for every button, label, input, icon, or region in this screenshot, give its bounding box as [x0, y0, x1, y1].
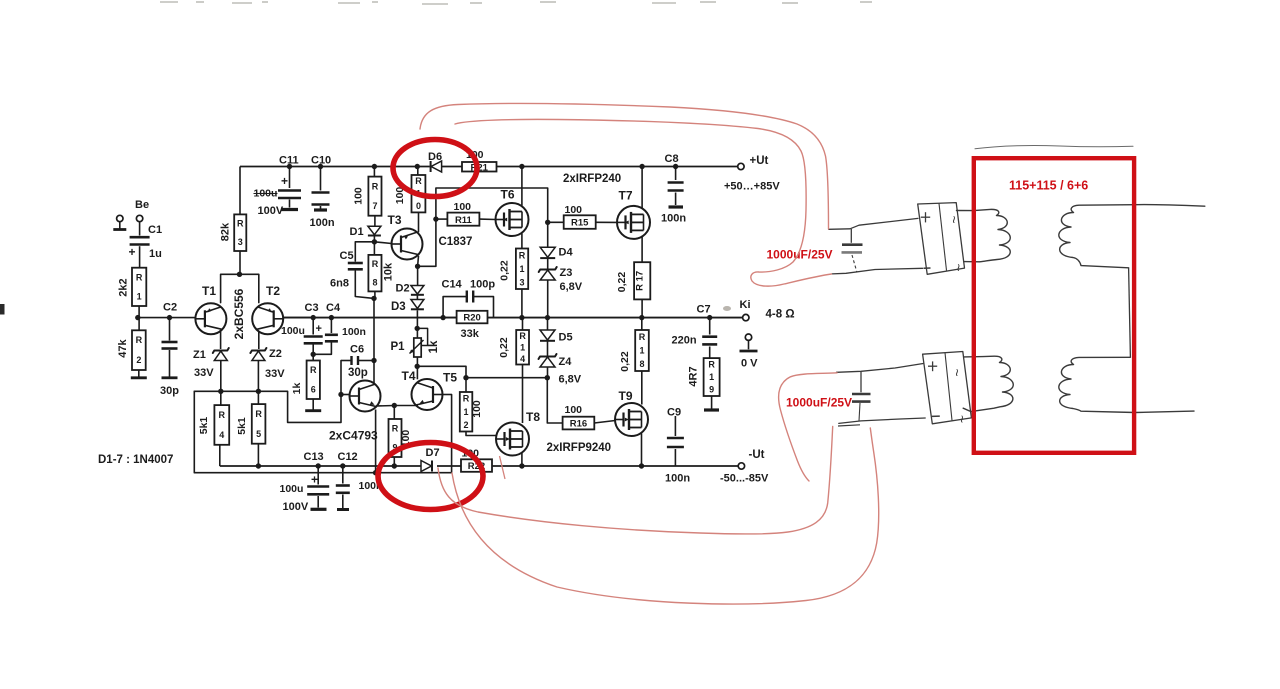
diode D4 [547, 222, 549, 247]
svg-text:R: R [136, 272, 143, 282]
svg-text:Z2: Z2 [269, 348, 282, 360]
svg-text:Z1: Z1 [193, 349, 206, 361]
red wire upper inner [455, 119, 832, 286]
wire T5 base right [443, 394, 452, 396]
resistor R8 [373, 242, 375, 255]
svg-text:C13: C13 [304, 451, 324, 463]
zener Z3 [547, 259, 549, 269]
node R11 left [433, 216, 438, 221]
svg-text:0,22: 0,22 [499, 260, 511, 281]
node T3 bottom [415, 264, 420, 269]
resistor R10 [417, 167, 419, 176]
svg-text:100: 100 [565, 204, 583, 216]
svg-text:82k: 82k [220, 222, 232, 241]
node input bias [135, 315, 140, 320]
svg-text:1: 1 [639, 346, 644, 356]
svg-text:+Ut: +Ut [750, 155, 769, 167]
svg-text:T4: T4 [402, 369, 416, 383]
svg-text:D2: D2 [396, 283, 410, 295]
svg-text:~: ~ [954, 415, 970, 423]
wire to R16 [547, 378, 562, 423]
svg-text:4: 4 [219, 430, 224, 440]
wire top rail +Ut [240, 166, 430, 168]
resistor R17 [634, 262, 650, 299]
resistor R13 [516, 249, 528, 290]
svg-text:1k: 1k [291, 383, 303, 395]
zener Z4 [547, 342, 549, 357]
svg-text:0,22: 0,22 [619, 351, 631, 372]
diode D2 [417, 266, 419, 285]
svg-text:+: + [281, 174, 288, 188]
resistor R14 [522, 318, 524, 330]
svg-text:115+115 / 6+6: 115+115 / 6+6 [1009, 179, 1088, 193]
winding primary P1 upper right [1059, 205, 1205, 268]
svg-text:100p: 100p [470, 279, 495, 291]
wire T5 collector [416, 366, 418, 379]
svg-text:D6: D6 [428, 151, 442, 163]
svg-text:0 V: 0 V [741, 358, 758, 370]
svg-text:C12: C12 [338, 451, 358, 463]
svg-text:R: R [708, 359, 715, 369]
svg-text:100: 100 [353, 187, 365, 205]
wire T1 collector to Z1 [220, 331, 222, 349]
wire T3 node to R11 junction [418, 219, 436, 266]
svg-text:2k2: 2k2 [118, 278, 130, 296]
node R8 bottom [371, 296, 376, 301]
svg-text:C7: C7 [697, 304, 711, 316]
wire bottom rail -Ut [220, 465, 421, 467]
wire T6 drain [521, 167, 523, 206]
transformer core line [975, 146, 1133, 149]
ground under C2 [162, 376, 178, 379]
svg-text:C9: C9 [667, 407, 681, 419]
svg-text:R: R [519, 250, 526, 260]
node P1 bottom [415, 364, 420, 369]
node R13 bottom rail [519, 315, 524, 320]
svg-text:T7: T7 [619, 189, 633, 203]
svg-text:R: R [392, 424, 399, 434]
node R10 top rail [415, 164, 420, 169]
svg-text:6,8V: 6,8V [560, 281, 583, 293]
red wire lower outer [452, 428, 879, 604]
svg-text:2xC4793: 2xC4793 [329, 429, 378, 443]
scan artifact left edge mark [0, 304, 5, 315]
terminal 0V with ground [745, 334, 751, 340]
svg-text:Z4: Z4 [559, 356, 573, 368]
svg-text:33k: 33k [461, 328, 480, 340]
svg-text:P1: P1 [391, 341, 406, 353]
svg-text:D1: D1 [350, 226, 364, 238]
svg-text:~: ~ [946, 216, 962, 224]
svg-text:10k: 10k [383, 262, 395, 281]
resistor R16 [563, 417, 595, 430]
capacitor C6 [341, 360, 352, 362]
svg-text:4R7: 4R7 [688, 366, 700, 386]
wire gate node line [466, 377, 547, 379]
node Z4 bottom [545, 375, 550, 380]
svg-text:100: 100 [454, 201, 472, 213]
terminal Ki output [743, 314, 749, 320]
resistor R1 [132, 268, 146, 306]
scan smudge [723, 306, 731, 311]
wire lower loop line L2 [194, 391, 451, 472]
svg-text:0: 0 [416, 201, 421, 211]
svg-text:-50...-85V: -50...-85V [720, 473, 769, 485]
diode D5 [547, 318, 549, 330]
diode D6 [431, 161, 442, 172]
capacitor C1 [139, 222, 141, 236]
node P1 wiper [415, 326, 420, 331]
svg-text:5k1: 5k1 [198, 417, 210, 435]
wire emitter tee [221, 274, 259, 302]
node T7 drain rail [639, 164, 644, 169]
resistor R19 [704, 358, 720, 396]
svg-text:33V: 33V [265, 368, 285, 380]
svg-text:R: R [310, 365, 317, 375]
resistor R12 [465, 378, 467, 392]
node C6 right [371, 358, 376, 363]
wire T9 source to rail [641, 434, 643, 467]
winding primary P2 lower right [1059, 357, 1194, 412]
capacitor C11 [287, 164, 292, 169]
wire T6 source to R13 [521, 234, 523, 249]
svg-text:R: R [255, 409, 262, 419]
node R15 left [545, 220, 550, 225]
svg-text:R: R [372, 181, 379, 191]
svg-text:100V: 100V [258, 205, 284, 217]
capacitor C5 [355, 242, 374, 261]
svg-text:220n: 220n [672, 335, 697, 347]
zener Z2 [250, 348, 266, 353]
resistor R7 [373, 167, 375, 177]
resistor R21 [462, 162, 497, 172]
diode D7 [421, 461, 432, 472]
wire primary series link [1129, 268, 1131, 358]
terminal +Ut [738, 163, 744, 169]
wire B2 minus lead [839, 418, 925, 423]
svg-text:1: 1 [464, 407, 469, 417]
wire bottom rail left rise to R4 [219, 445, 221, 466]
wire T2 base [283, 317, 313, 319]
wire T7 source to R17 [641, 236, 643, 262]
svg-text:R: R [463, 394, 470, 404]
svg-text:47k: 47k [117, 338, 129, 357]
capacitor C4 [329, 315, 334, 320]
svg-text:2xBC556: 2xBC556 [232, 288, 246, 339]
svg-text:T1: T1 [202, 284, 216, 298]
svg-text:+: + [311, 473, 318, 487]
svg-text:~: ~ [951, 264, 967, 272]
resistor R11 [447, 213, 479, 226]
svg-text:0,22: 0,22 [616, 272, 628, 293]
svg-text:30p: 30p [348, 367, 368, 379]
capacitor C2 [167, 315, 172, 320]
svg-text:D4: D4 [559, 247, 574, 259]
wire T8 source to rail [521, 453, 523, 466]
red circle around D7 [378, 443, 483, 510]
wire B1 plus lead [829, 218, 918, 229]
svg-text:R: R [237, 219, 244, 229]
svg-text:+50…+85V: +50…+85V [724, 181, 780, 193]
capacitor C10 [318, 164, 323, 169]
node R5 bottom rail [256, 463, 261, 468]
svg-text:0,22: 0,22 [498, 337, 510, 358]
resistor R5 [257, 391, 259, 404]
wire T7 drain [641, 167, 643, 209]
svg-text:C11: C11 [279, 155, 299, 167]
wire T5 emitter to node [394, 405, 418, 407]
wire P1 wiper loop [417, 328, 427, 345]
capacitor C3 [311, 315, 316, 320]
resistor R20 [443, 317, 457, 319]
svg-text:100u: 100u [280, 483, 304, 495]
svg-text:1: 1 [709, 372, 714, 382]
svg-text:8: 8 [372, 277, 377, 287]
node R9 bottom [392, 463, 397, 468]
svg-text:C10: C10 [311, 155, 331, 167]
svg-text:1: 1 [520, 342, 525, 352]
svg-text:+: + [129, 245, 136, 259]
red wire upper outer [420, 103, 829, 229]
svg-text:1: 1 [137, 291, 142, 301]
node Z3 bottom rail [545, 315, 550, 320]
node driver emitters [392, 403, 397, 408]
resistor R2 [138, 318, 140, 331]
wire mid output rail [283, 317, 457, 319]
svg-text:1k: 1k [428, 340, 440, 353]
svg-text:R 17: R 17 [635, 271, 646, 291]
resistor R4 [220, 391, 222, 405]
svg-text:R11: R11 [455, 215, 473, 226]
resistor R3 [234, 214, 246, 251]
svg-text:R: R [519, 331, 526, 341]
svg-text:1u: 1u [149, 248, 162, 260]
svg-text:100n: 100n [310, 217, 335, 229]
svg-text:C1: C1 [148, 224, 162, 236]
node R20 left [440, 315, 445, 320]
wire over to R15 and D4 chain [436, 188, 548, 222]
svg-text:2xIRFP240: 2xIRFP240 [563, 173, 621, 185]
svg-text:3: 3 [520, 277, 525, 287]
wire R14 to T8 drain [522, 365, 524, 424]
red wire lower inner [438, 427, 833, 535]
svg-text:100n: 100n [665, 473, 690, 485]
svg-text:Z3: Z3 [560, 267, 573, 279]
node T8 source rail [519, 463, 524, 468]
svg-text:T2: T2 [266, 284, 280, 298]
red box transformer [974, 158, 1134, 453]
svg-text:C6: C6 [350, 344, 364, 356]
svg-text:-Ut: -Ut [749, 449, 765, 461]
red stub near D7 [500, 456, 506, 479]
wire P1 bottom to gate node [417, 366, 466, 377]
svg-text:5k1: 5k1 [236, 417, 248, 435]
svg-text:33V: 33V [194, 367, 214, 379]
wire R8 node down to C6 and T4 [373, 298, 375, 360]
wire R18 to T9 drain [641, 371, 643, 405]
svg-text:30p: 30p [160, 385, 179, 397]
wire T4 circle to L2 [375, 410, 377, 473]
svg-text:100u: 100u [281, 325, 305, 337]
svg-text:8: 8 [639, 359, 644, 369]
capacitor C12 [340, 463, 345, 468]
terminal -Ut [738, 463, 744, 469]
svg-text:+: + [316, 323, 322, 335]
capacitor C13 [316, 463, 321, 468]
node R7 top [372, 164, 377, 169]
svg-text:100u: 100u [254, 188, 278, 200]
svg-text:Ki: Ki [740, 299, 751, 311]
svg-text:R: R [219, 410, 226, 420]
svg-text:R15: R15 [571, 218, 589, 229]
wire B2 ac top to winding S2 [963, 356, 1013, 411]
svg-text:T8: T8 [526, 410, 540, 424]
svg-text:100n: 100n [661, 213, 686, 225]
wire top rail left drop to R3 [239, 167, 241, 215]
svg-text:D7: D7 [426, 447, 440, 459]
svg-text:D3: D3 [391, 301, 406, 313]
svg-text:R: R [639, 332, 646, 342]
wire R15 to T7 gate [596, 221, 617, 223]
svg-text:C5: C5 [340, 250, 354, 262]
svg-text:6,8V: 6,8V [559, 374, 582, 386]
wire B2 lead hook [838, 425, 860, 426]
svg-text:100n: 100n [342, 326, 366, 338]
svg-text:C1837: C1837 [439, 236, 473, 248]
svg-text:R: R [136, 335, 143, 345]
bridge rectifier B1 [918, 203, 965, 275]
svg-text:1000uF/25V: 1000uF/25V [786, 396, 852, 410]
svg-text:C3: C3 [305, 302, 319, 314]
capacitor C8 [673, 164, 678, 169]
svg-text:2xIRFP9240: 2xIRFP9240 [547, 442, 612, 454]
svg-text:T6: T6 [501, 188, 515, 202]
bridge rectifier B2 [923, 352, 972, 424]
node feedback shunt [311, 352, 316, 357]
svg-text:Be: Be [135, 199, 149, 211]
svg-text:C14: C14 [442, 279, 463, 291]
scan artifacts top edge [160, 2, 872, 4]
wire T3 top to R10 [418, 212, 420, 232]
wire T3 emitter down [417, 256, 420, 266]
capacitor 1000uF lower [860, 371, 862, 392]
svg-text:2: 2 [464, 420, 469, 430]
diode D1 [368, 226, 381, 235]
svg-text:T3: T3 [388, 213, 402, 227]
svg-text:R: R [415, 176, 422, 186]
node diff pair emitters [237, 272, 242, 277]
wire input node to T1 base [138, 317, 196, 319]
wire B1 ac top to winding S1 [957, 209, 1011, 261]
svg-text:D5: D5 [559, 332, 573, 344]
ground under R6 [305, 409, 321, 412]
svg-text:T5: T5 [443, 371, 457, 385]
svg-text:D1-7 : 1N4007: D1-7 : 1N4007 [98, 454, 173, 466]
node T4 base [338, 392, 343, 397]
svg-text:C4: C4 [326, 302, 341, 314]
resistor R6 [312, 354, 314, 360]
wire B1 minus lead [832, 268, 923, 274]
ground at input [119, 222, 121, 229]
capacitor C14 [443, 297, 467, 318]
svg-text:4-8 Ω: 4-8 Ω [766, 309, 795, 321]
svg-text:5: 5 [256, 429, 261, 439]
svg-text:2: 2 [136, 355, 141, 365]
red wire lower curl [779, 373, 837, 481]
wire B2 plus lead [837, 364, 924, 373]
capacitor 1000uF upper [850, 229, 852, 243]
diode D3 [416, 295, 418, 300]
wire T4 emitter to node [376, 405, 394, 408]
node T6 drain rail [519, 164, 524, 169]
svg-text:9: 9 [709, 385, 714, 395]
resistor R15 [564, 215, 596, 229]
svg-text:6n8: 6n8 [330, 278, 349, 290]
resistor R22 [461, 459, 492, 472]
wire R16 to T9 gate [594, 421, 615, 424]
wire T2 collector to Z2 [258, 331, 260, 349]
svg-text:100V: 100V [283, 501, 309, 513]
wire zener clamp line [194, 361, 341, 423]
node T9 source rail [639, 463, 644, 468]
potentiometer P1 [416, 328, 418, 338]
svg-text:C8: C8 [665, 153, 679, 165]
node D1 bottom [372, 239, 377, 244]
svg-text:R16: R16 [570, 419, 587, 430]
svg-text:4: 4 [520, 354, 525, 364]
node gate drive [463, 375, 468, 380]
node R17 bottom rail [639, 315, 644, 320]
svg-text:R: R [372, 259, 379, 269]
wire R11 to T6 gate [479, 218, 495, 220]
svg-text:~: ~ [949, 369, 965, 377]
svg-text:C2: C2 [163, 302, 177, 314]
capacitor C7 [707, 315, 712, 320]
capacitor C9 [674, 416, 676, 436]
red circle around D6 [393, 140, 477, 197]
svg-text:1: 1 [520, 264, 525, 274]
wire to T3 base [374, 242, 391, 244]
svg-text:7: 7 [372, 201, 377, 211]
wire R12 to T8 gate [466, 432, 497, 436]
svg-text:T9: T9 [619, 389, 633, 403]
svg-text:3: 3 [238, 237, 243, 247]
zener Z1 [213, 348, 229, 353]
node Z1 line [218, 389, 223, 394]
svg-text:100: 100 [471, 400, 483, 418]
svg-text:100: 100 [565, 404, 583, 416]
ground under R2 [131, 376, 147, 379]
svg-text:6: 6 [311, 384, 316, 394]
node Z2 line [256, 389, 261, 394]
resistor R18 [641, 318, 643, 330]
svg-text:R20: R20 [463, 313, 480, 324]
wire T4 collector up [374, 383, 376, 386]
resistor R9 [393, 406, 395, 420]
